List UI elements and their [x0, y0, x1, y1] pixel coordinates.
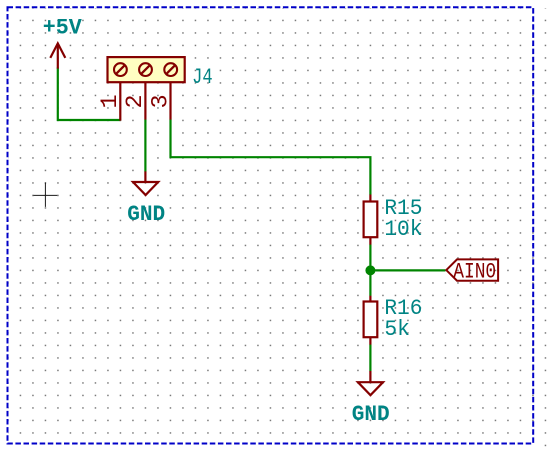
svg-text:+5V: +5V — [43, 16, 83, 41]
svg-text:3: 3 — [147, 94, 174, 108]
svg-text:1: 1 — [97, 94, 124, 108]
svg-text:2: 2 — [122, 94, 149, 108]
svg-text:AIN0: AIN0 — [453, 260, 496, 285]
svg-text:5k: 5k — [384, 317, 410, 342]
svg-text:GND: GND — [352, 402, 390, 427]
svg-text:J4: J4 — [192, 65, 213, 90]
svg-text:10k: 10k — [384, 217, 422, 242]
svg-text:GND: GND — [127, 202, 165, 227]
